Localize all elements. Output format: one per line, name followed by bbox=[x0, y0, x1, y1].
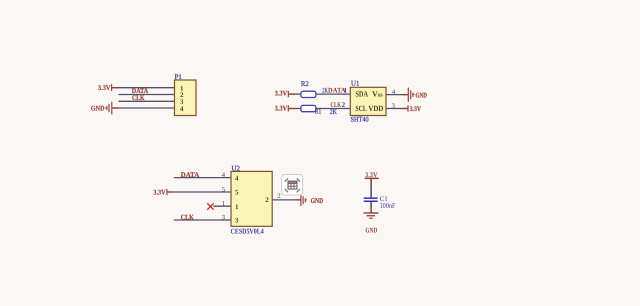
svg-text:4: 4 bbox=[222, 172, 226, 179]
svg-text:5: 5 bbox=[235, 189, 239, 197]
svg-text:2: 2 bbox=[342, 101, 346, 109]
svg-text:1: 1 bbox=[235, 203, 239, 211]
svg-text:R2: R2 bbox=[301, 80, 309, 88]
svg-text:3.3V: 3.3V bbox=[98, 84, 111, 92]
svg-text:R1: R1 bbox=[315, 108, 322, 116]
svg-text:CLK: CLK bbox=[181, 213, 194, 221]
svg-text:2: 2 bbox=[277, 193, 281, 200]
svg-text:4: 4 bbox=[235, 174, 239, 182]
svg-text:DATA: DATA bbox=[181, 171, 200, 179]
svg-text:CESD5V0L4: CESD5V0L4 bbox=[231, 227, 265, 235]
svg-text:2K: 2K bbox=[330, 108, 337, 116]
svg-text:U1: U1 bbox=[351, 80, 360, 88]
svg-text:GND: GND bbox=[311, 197, 324, 205]
svg-text:GND: GND bbox=[416, 92, 428, 100]
svg-text:SDA: SDA bbox=[355, 90, 368, 99]
svg-text:3.3V: 3.3V bbox=[275, 104, 288, 112]
svg-text:Vss: Vss bbox=[372, 90, 383, 99]
svg-text:3: 3 bbox=[222, 214, 226, 221]
svg-text:100nF: 100nF bbox=[380, 201, 396, 210]
svg-text:U2: U2 bbox=[232, 165, 241, 173]
svg-text:SCL: SCL bbox=[355, 104, 366, 113]
svg-text:P1: P1 bbox=[175, 73, 183, 81]
svg-text:4: 4 bbox=[180, 105, 184, 113]
svg-text:5: 5 bbox=[222, 186, 226, 193]
svg-text:3.3V: 3.3V bbox=[410, 105, 422, 113]
svg-text:SHT40: SHT40 bbox=[351, 116, 370, 124]
svg-text:1: 1 bbox=[344, 86, 348, 94]
svg-text:2: 2 bbox=[265, 196, 269, 204]
svg-text:GND: GND bbox=[365, 227, 377, 235]
svg-text:GND: GND bbox=[91, 105, 105, 113]
svg-text:3: 3 bbox=[235, 217, 239, 225]
svg-text:3.3V: 3.3V bbox=[365, 171, 378, 179]
svg-text:VDD: VDD bbox=[368, 104, 383, 113]
svg-text:CLK: CLK bbox=[331, 101, 342, 109]
svg-text:CLK: CLK bbox=[132, 94, 145, 102]
svg-text:3.3V: 3.3V bbox=[153, 189, 166, 197]
svg-text:3.3V: 3.3V bbox=[275, 90, 288, 98]
svg-text:1: 1 bbox=[222, 201, 226, 208]
svg-text:3: 3 bbox=[391, 103, 395, 110]
svg-text:4: 4 bbox=[392, 89, 396, 96]
